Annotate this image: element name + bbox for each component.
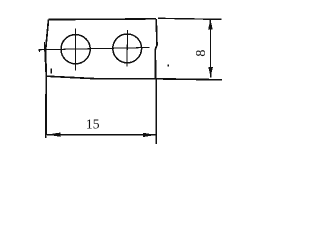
arrowhead right (15 dimension) — [143, 133, 156, 137]
top extension line for 8 dimension — [158, 18, 221, 19]
scan doubling of left edge — [44, 42, 46, 62]
stray scan speck near right edge — [168, 65, 170, 67]
part outline left edge with dimension extension line — [46, 20, 49, 139]
part outline right edge — [155, 19, 157, 79]
arrowhead left (15 dimension) — [47, 133, 61, 137]
right extension line for 15 dimension — [155, 79, 157, 144]
vertical centerline right hole — [126, 30, 128, 66]
part outline top edge — [48, 18, 156, 21]
horizontal centerline through both holes — [38, 48, 149, 50]
hole circle left — [61, 35, 90, 64]
part outline bottom edge with right extension line to 8-dimension — [46, 76, 222, 80]
svg-text:8: 8 — [194, 50, 209, 57]
svg-text:15: 15 — [86, 117, 100, 132]
arrowhead down (8 dimension bottom) — [208, 67, 213, 77]
small tick at left end of centerline — [39, 49, 41, 52]
vertical centerline left hole — [74, 28, 76, 70]
horizontal dimension line for 15 — [47, 134, 156, 136]
hole circle right — [113, 34, 142, 63]
vertical dimension line for 8 — [209, 19, 211, 77]
arrowhead up (8 dimension top) — [208, 19, 213, 29]
small scan mark at bottom-left edge — [51, 69, 52, 74]
